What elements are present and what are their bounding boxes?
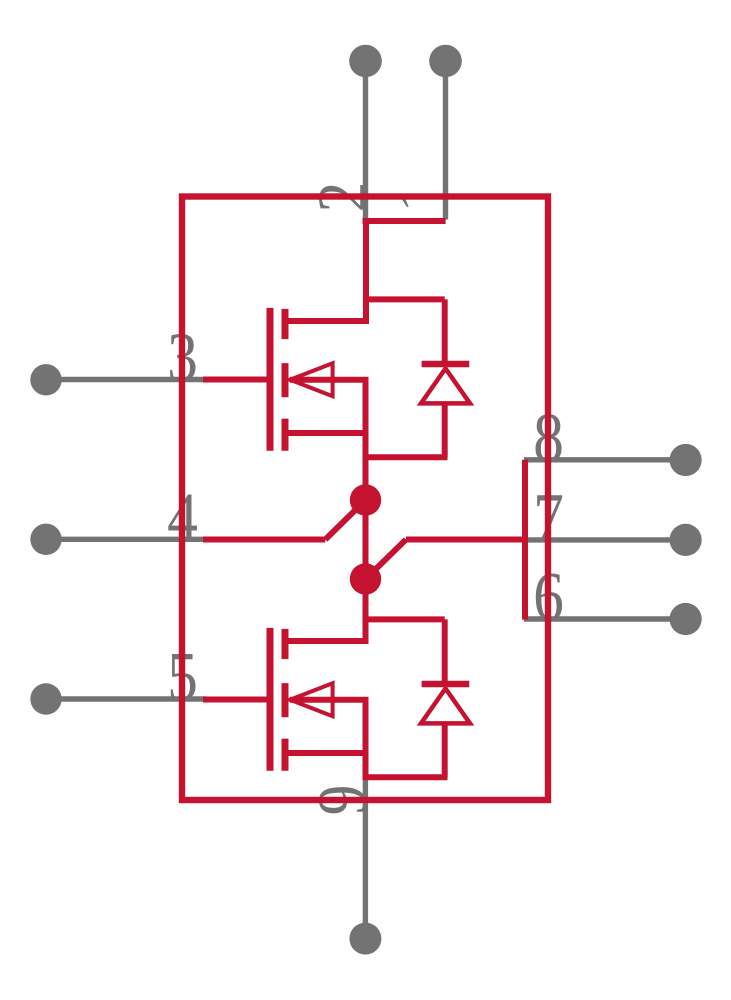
wire: drain tie bar Q2 xyxy=(363,616,445,622)
transistor Q2 source bar xyxy=(283,750,369,756)
pin 3 terminal xyxy=(30,364,61,395)
pin 5 terminal xyxy=(30,683,61,714)
transistor Q2 body line xyxy=(290,697,369,703)
pin 4 wire xyxy=(46,537,206,542)
pin 1 terminal xyxy=(429,45,462,78)
diode D2 cathode bar xyxy=(422,681,470,688)
transistor Q2 channel segment top xyxy=(282,629,289,659)
wire: diode D1 cathode lead xyxy=(442,299,448,364)
diode D1 triangle xyxy=(421,369,470,404)
wire: source vertical Q1 xyxy=(363,380,369,500)
transistor Q1 channel segment top xyxy=(282,309,289,339)
wire: gate lead pin3 xyxy=(203,377,274,383)
wire: source vertical Q2 xyxy=(363,700,369,778)
transistor Q1 gate bar xyxy=(267,308,274,451)
pin 6 terminal xyxy=(670,603,702,635)
gray layer: pins, terminals, labels xyxy=(46,61,686,939)
diode D1 cathode bar xyxy=(422,361,470,368)
transistor Q2 body arrowhead xyxy=(289,694,301,706)
transistor Q1 source bar xyxy=(283,430,369,436)
wire: source node Q2 xyxy=(363,774,448,780)
pin 9 wire xyxy=(363,777,368,939)
pin 1 wire xyxy=(443,61,448,220)
pin 8 wire xyxy=(524,457,686,462)
wire: diode D2 anode lead xyxy=(442,723,448,777)
wire: drain lead Q1 xyxy=(363,221,369,324)
transistor Q2 gate bar xyxy=(267,628,274,771)
wire: switch node vertical xyxy=(363,457,369,644)
pin 8 terminal xyxy=(670,444,702,476)
transistor Q2 body triangle xyxy=(290,683,333,716)
package outline box xyxy=(182,197,548,801)
wire: diode D1 anode lead xyxy=(442,403,448,457)
transistor Q1 drain bar xyxy=(283,318,369,324)
transistor Q1 channel segment mid xyxy=(282,363,289,397)
wire: drain-to-diode branch Q1 xyxy=(366,296,445,302)
pin 2 wire xyxy=(363,61,368,218)
wire: pin4 horizontal xyxy=(203,537,325,543)
wire: source node Q1 xyxy=(363,454,448,460)
red layer: internal schematic xyxy=(182,197,548,801)
pin 7 terminal xyxy=(670,524,702,556)
diode D2 triangle xyxy=(421,689,470,724)
transistor Q1 channel segment bottom xyxy=(282,419,289,451)
pin 6 wire xyxy=(524,616,686,621)
wire: switch node to bus xyxy=(406,537,527,543)
transistor Q2 channel segment mid xyxy=(282,683,289,717)
transistor Q2 channel segment bottom xyxy=(282,739,289,771)
pin 5 wire xyxy=(46,696,206,701)
transistor Q1 body arrowhead xyxy=(289,374,301,386)
junction dot node A xyxy=(350,484,381,515)
junction dot node B xyxy=(350,563,381,594)
transistor Q1 body triangle xyxy=(290,363,333,396)
wire: pin1-pin2 tie bar xyxy=(363,218,446,224)
pin 4 terminal xyxy=(30,524,61,555)
pin 7 wire xyxy=(524,537,686,542)
wire: right bus vertical xyxy=(522,460,528,620)
wire: diode D2 cathode lead xyxy=(442,619,448,684)
pin 3 wire xyxy=(46,377,206,382)
wire: diagonal to pin4 xyxy=(325,500,365,540)
wire: gate lead pin5 xyxy=(203,697,274,703)
transistor Q2 drain bar xyxy=(283,638,369,644)
wire: diagonal to right bus xyxy=(366,540,407,580)
transistor Q1 body line xyxy=(290,377,369,383)
pin 9 terminal xyxy=(349,923,381,955)
pin 2 terminal xyxy=(349,45,382,78)
